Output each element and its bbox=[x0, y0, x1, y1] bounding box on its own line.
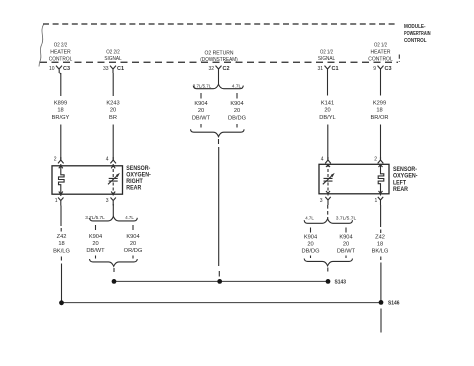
merge brace downstream bbox=[191, 129, 245, 136]
wire Z42 upper segment bbox=[60, 206, 62, 227]
wire label K904 20 DB/WT bbox=[192, 101, 211, 122]
branch dash right lower bbox=[345, 256, 347, 259]
svg-text:4: 4 bbox=[106, 156, 109, 162]
sensing element bars right box bbox=[324, 178, 333, 181]
branch dash left bbox=[200, 93, 202, 99]
svg-text:BK/LG: BK/LG bbox=[372, 249, 389, 255]
branch dash lower bbox=[310, 256, 312, 259]
svg-text:MODULE-: MODULE- bbox=[404, 24, 426, 30]
svg-text:20: 20 bbox=[92, 241, 98, 247]
pin 2 plug left box bbox=[58, 157, 64, 163]
svg-text:C1: C1 bbox=[117, 66, 124, 72]
svg-text:OR/DG: OR/DG bbox=[124, 248, 143, 254]
PCM pin function label: O2 2/2 HEATER CONTROL bbox=[49, 43, 393, 64]
svg-text:DB/DG: DB/DG bbox=[301, 249, 319, 255]
merge brace left sensor bbox=[90, 259, 138, 266]
svg-text:20: 20 bbox=[324, 108, 330, 114]
PCM torn left edge bbox=[39, 25, 44, 67]
svg-text:OXYGEN-: OXYGEN- bbox=[126, 172, 151, 178]
svg-text:32: 32 bbox=[208, 66, 214, 72]
svg-text:3: 3 bbox=[320, 198, 323, 204]
pin 3 socket right box bbox=[325, 197, 330, 205]
svg-text:3: 3 bbox=[106, 198, 109, 204]
svg-text:S146: S146 bbox=[388, 301, 400, 307]
connector C1 pin 31 bbox=[317, 66, 338, 73]
svg-text:SIGNAL: SIGNAL bbox=[318, 56, 335, 62]
svg-text:C1: C1 bbox=[332, 66, 339, 72]
svg-text:BK/LG: BK/LG bbox=[53, 248, 70, 254]
svg-text:18: 18 bbox=[58, 241, 64, 247]
svg-text:4.7L: 4.7L bbox=[305, 215, 314, 221]
branch dash right bbox=[345, 228, 347, 233]
svg-text:K904: K904 bbox=[339, 235, 352, 241]
sensing element pin4 circuit dashed line bbox=[112, 164, 114, 177]
svg-text:3.7L/5.7L: 3.7L/5.7L bbox=[85, 215, 105, 221]
wire label Z42 18 BK/LG bbox=[53, 234, 70, 255]
svg-text:O2 2/2: O2 2/2 bbox=[54, 43, 68, 49]
svg-text:Z42: Z42 bbox=[57, 234, 67, 240]
svg-text:SIGNAL: SIGNAL bbox=[104, 56, 121, 62]
svg-text:REAR: REAR bbox=[126, 186, 142, 192]
branch dash right bbox=[132, 225, 134, 230]
svg-text:BR: BR bbox=[109, 115, 117, 121]
svg-text:CONTROL: CONTROL bbox=[49, 56, 73, 62]
wire Z42 right dash bbox=[380, 230, 382, 234]
svg-text:HEATER: HEATER bbox=[50, 50, 71, 56]
svg-text:DB/DG: DB/DG bbox=[228, 116, 246, 122]
wire to splice bbox=[218, 147, 220, 266]
svg-text:C3: C3 bbox=[63, 66, 70, 72]
wire Z42 right upper segment bbox=[380, 205, 382, 227]
svg-text:K243: K243 bbox=[106, 100, 119, 106]
svg-text:DB/YL: DB/YL bbox=[319, 115, 335, 121]
svg-text:O2 1/2: O2 1/2 bbox=[374, 43, 387, 49]
heater edge marks right box bbox=[379, 165, 383, 194]
sensing element pin4 right box dashed line bbox=[327, 164, 329, 177]
svg-text:C2: C2 bbox=[223, 66, 230, 72]
pin 4 plug left box bbox=[110, 157, 116, 163]
svg-text:1: 1 bbox=[55, 198, 58, 204]
wire label K141 20 DB/YL bbox=[319, 100, 335, 121]
module powertrain control PCM dashed box top edge bbox=[43, 23, 398, 25]
wire label Z42 18 BK/LG right bbox=[372, 235, 389, 255]
svg-text:CONTROL: CONTROL bbox=[404, 38, 427, 44]
connector C3 pin 10 bbox=[49, 66, 70, 74]
wire K141 lower segment bbox=[327, 125, 329, 161]
svg-text:10: 10 bbox=[49, 66, 55, 72]
svg-text:4.7L: 4.7L bbox=[125, 215, 134, 221]
svg-text:REAR: REAR bbox=[393, 187, 409, 193]
oxygen sensor right rear box bbox=[52, 166, 123, 194]
svg-text:RIGHT: RIGHT bbox=[126, 179, 143, 185]
wire to splice dash bbox=[218, 139, 220, 144]
wire K899 lower segment bbox=[60, 125, 62, 161]
PCM dashed box right edge bbox=[398, 55, 400, 63]
sensing element arrow bbox=[108, 176, 117, 184]
wire below S146 bbox=[380, 309, 382, 333]
wire Z42 lower segment bbox=[61, 264, 63, 303]
svg-text:9: 9 bbox=[373, 66, 376, 72]
PCM dashed box bottom edge bbox=[40, 61, 398, 63]
svg-text:K904: K904 bbox=[304, 235, 317, 241]
svg-text:DB/WT: DB/WT bbox=[337, 249, 356, 255]
heater edge marks bbox=[59, 166, 63, 195]
split brace downstream bbox=[193, 84, 243, 88]
wire label K243 20 BR bbox=[106, 100, 119, 121]
pin 4 plug right box bbox=[325, 157, 331, 163]
svg-text:DB/WT: DB/WT bbox=[192, 116, 211, 122]
svg-text:HEATER: HEATER bbox=[371, 50, 391, 56]
wire K243 lower segment bbox=[112, 125, 114, 161]
svg-text:DB/WT: DB/WT bbox=[86, 248, 105, 254]
svg-text:SENSOR-: SENSOR- bbox=[393, 167, 417, 173]
wire K299 upper segment bbox=[380, 73, 382, 96]
pin 2 plug right box bbox=[378, 157, 384, 163]
wire Z42 right lower segment bbox=[380, 263, 382, 303]
wire label K904 20 DB/WT right sensor bbox=[337, 235, 356, 255]
sensing element bars bbox=[109, 178, 118, 181]
svg-text:20: 20 bbox=[198, 108, 204, 114]
svg-text:S143: S143 bbox=[335, 280, 347, 286]
wire to splice dash2 bbox=[218, 271, 220, 277]
svg-text:2: 2 bbox=[54, 156, 57, 162]
wire label K904 20 DB/DG right sensor bbox=[301, 235, 319, 255]
svg-text:20: 20 bbox=[307, 242, 313, 248]
branch dash bbox=[95, 225, 97, 230]
svg-text:BR/GY: BR/GY bbox=[52, 115, 70, 121]
svg-text:20: 20 bbox=[343, 242, 349, 248]
pin 3 socket left box bbox=[111, 198, 116, 206]
splice S143 dot bbox=[326, 279, 331, 284]
svg-text:O2 RETURN: O2 RETURN bbox=[205, 50, 234, 56]
pin 1 socket right box bbox=[378, 197, 383, 205]
svg-text:OXYGEN-: OXYGEN- bbox=[393, 174, 418, 180]
svg-text:20: 20 bbox=[130, 241, 136, 247]
heater element pin2 circuit bbox=[59, 164, 65, 196]
wire K899 upper segment bbox=[60, 73, 62, 96]
svg-text:K904: K904 bbox=[230, 101, 243, 107]
wire Z42 dash lower bbox=[60, 257, 62, 261]
svg-text:18: 18 bbox=[57, 108, 63, 114]
branch dash lower bbox=[95, 256, 97, 259]
svg-text:2: 2 bbox=[374, 156, 377, 162]
branch dash bbox=[310, 228, 312, 233]
svg-text:4.7L: 4.7L bbox=[232, 84, 242, 90]
splice S146 dot bbox=[379, 300, 384, 305]
svg-text:K904: K904 bbox=[194, 101, 207, 107]
svg-text:CONTROL: CONTROL bbox=[368, 56, 393, 62]
sensor edge marks pin4 bbox=[111, 166, 115, 195]
wire K299 lower segment bbox=[380, 125, 382, 161]
merged wire dash right bbox=[327, 268, 329, 272]
svg-text:K899: K899 bbox=[54, 100, 67, 106]
split brace left sensor bbox=[90, 217, 138, 221]
svg-text:18: 18 bbox=[377, 242, 383, 248]
svg-text:LEFT: LEFT bbox=[393, 180, 406, 186]
wire Z42 dash bbox=[60, 228, 62, 232]
svg-text:K299: K299 bbox=[373, 100, 386, 106]
wire label K904 20 DB/DG bbox=[228, 101, 246, 122]
svg-text:4: 4 bbox=[321, 156, 324, 162]
pin3 wire to brace dashed bbox=[112, 204, 114, 217]
wire label K904 20 DB/WT left sensor bbox=[86, 234, 105, 254]
svg-text:POWERTRAIN: POWERTRAIN bbox=[404, 31, 431, 37]
sensor edge marks right box bbox=[326, 165, 330, 194]
svg-text:31: 31 bbox=[317, 66, 323, 72]
svg-text:33: 33 bbox=[103, 66, 109, 72]
connector C3 pin 9 bbox=[373, 66, 391, 73]
pin3 wire to brace dashed right bbox=[327, 205, 329, 219]
junction dot mid merge bbox=[217, 279, 222, 284]
wire K243 upper segment bbox=[112, 73, 114, 96]
wire K141 upper segment bbox=[327, 73, 329, 96]
svg-text:K904: K904 bbox=[89, 234, 102, 240]
wire O2 return stem bbox=[218, 73, 220, 85]
branch dash left lower bbox=[200, 124, 202, 128]
svg-text:O2 2/2: O2 2/2 bbox=[106, 49, 120, 55]
svg-text:K904: K904 bbox=[126, 234, 139, 240]
merged wire dash bbox=[113, 268, 115, 272]
svg-text:18: 18 bbox=[376, 108, 382, 114]
sensing element arrow right box bbox=[323, 176, 332, 184]
svg-text:(DOWNSTREAM): (DOWNSTREAM) bbox=[200, 57, 238, 63]
svg-text:3.7L/5.7L: 3.7L/5.7L bbox=[336, 215, 357, 221]
svg-text:K141: K141 bbox=[321, 100, 334, 106]
merge brace right sensor bbox=[304, 259, 352, 266]
svg-text:20: 20 bbox=[110, 108, 116, 114]
svg-text:Z42: Z42 bbox=[375, 235, 385, 241]
connector C1 pin 33 bbox=[103, 66, 124, 73]
splice bus lower bbox=[62, 302, 382, 304]
svg-text:SENSOR-: SENSOR- bbox=[126, 166, 150, 172]
split brace right sensor bbox=[304, 219, 352, 223]
branch dash right lower bbox=[132, 256, 134, 259]
junction dot left merge bbox=[112, 279, 117, 284]
oxygen sensor left rear box bbox=[319, 164, 389, 194]
wire label K899 18 BR/GY bbox=[52, 100, 70, 121]
connector C2 pin 32 bbox=[208, 66, 229, 73]
pin 1 socket left box bbox=[58, 198, 63, 206]
wire Z42 right dash lower bbox=[380, 257, 382, 261]
branch dash right lower bbox=[236, 124, 238, 128]
svg-text:C3: C3 bbox=[385, 66, 392, 72]
wire label K904 20 DB/DG left sensor bbox=[124, 234, 143, 254]
junction dot Z42 left bbox=[59, 300, 64, 305]
splice bus upper bbox=[114, 280, 328, 282]
svg-text:3.7L/5.7L: 3.7L/5.7L bbox=[193, 84, 212, 90]
branch dash right bbox=[236, 93, 238, 99]
svg-text:BR/OR: BR/OR bbox=[370, 115, 388, 121]
wire label K299 18 BR/OR bbox=[370, 100, 388, 121]
heater element right box bbox=[378, 164, 384, 196]
svg-text:O2 1/2: O2 1/2 bbox=[320, 49, 333, 55]
svg-text:20: 20 bbox=[234, 108, 240, 114]
svg-text:1: 1 bbox=[375, 198, 378, 204]
